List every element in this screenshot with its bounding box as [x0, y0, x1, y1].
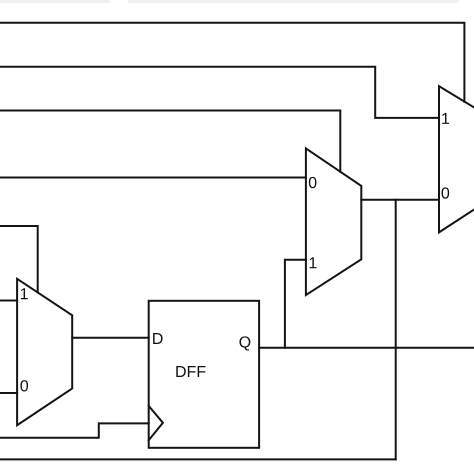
label D (DFF input pin)	[153, 333, 162, 344]
wire net C (third wire to middle mux select)	[0, 111, 340, 172]
label Q (DFF output pin)	[239, 336, 250, 350]
label 1 (mux M3 input 1)	[442, 113, 449, 124]
label 1 (mux M1 input 1)	[21, 288, 28, 299]
label 0 (mux M2 input 0)	[309, 177, 317, 188]
wire middle mux output to right mux input 0	[361, 199, 439, 201]
wire left mux input 0	[0, 392, 17, 394]
wire Q output	[259, 347, 474, 349]
wire net D (fourth wire to middle mux input 0)	[0, 177, 306, 179]
wire left mux input 1	[0, 300, 17, 302]
flip-flop U1 DFF box	[149, 301, 259, 448]
label DFF (flip-flop name)	[176, 366, 205, 377]
mux M2 (middle) body	[306, 148, 361, 295]
wire clock into DFF	[0, 423, 149, 437]
wire left mux output to DFF D	[72, 337, 149, 339]
faint cropped text remnant top	[0, 0, 458, 3]
label 1 (mux M2 input 1)	[310, 257, 317, 268]
wire net A (top wire to right mux select)	[0, 23, 464, 102]
mux M3 (right, clipped) body	[439, 86, 474, 232]
wire bottom feedback	[0, 458, 396, 460]
clock wedge on DFF	[149, 406, 163, 440]
wire middle mux output branch down	[395, 200, 397, 460]
wire Q feedback to middle mux input 1	[285, 260, 306, 348]
wire net B (second wire to right mux input 1)	[0, 67, 439, 118]
mux M1 (left) body	[17, 279, 72, 425]
label 0 (mux M1 input 0)	[20, 380, 28, 391]
label 0 (mux M3 input 0)	[442, 187, 450, 198]
wire left mux select	[0, 226, 38, 292]
